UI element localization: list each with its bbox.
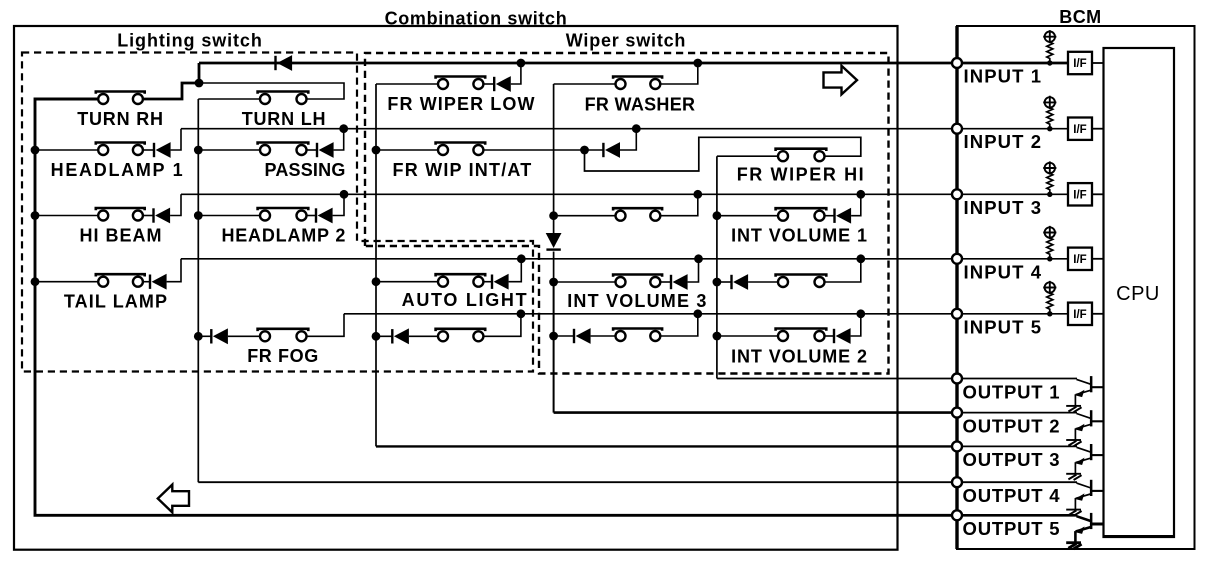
switch TURN LH [258, 90, 309, 94]
node INT VOLUME1 tap [713, 211, 722, 220]
svg-text:FR WASHER: FR WASHER [585, 95, 696, 115]
svg-text:FR FOG: FR FOG [247, 346, 319, 366]
svg-text:I/F: I/F [1073, 124, 1086, 136]
svg-text:HEADLAMP 2: HEADLAMP 2 [221, 226, 346, 246]
wire INPUT4 row [181, 258, 1068, 260]
svg-text:INPUT 4: INPUT 4 [964, 261, 1043, 282]
svg-text:INPUT 2: INPUT 2 [964, 131, 1043, 152]
svg-text:OUTPUT 1: OUTPUT 1 [963, 381, 1061, 402]
node FR WIP INT-AT / INPUT2 [632, 124, 641, 133]
svg-text:I/F: I/F [1073, 190, 1086, 202]
switch HEADLAMP 1 [35, 149, 99, 151]
switch TAIL LAMP [35, 281, 99, 283]
svg-text:TAIL LAMP: TAIL LAMP [64, 292, 168, 312]
diode INT VOLUME 3 [660, 281, 671, 283]
svg-text:I/F: I/F [1073, 254, 1086, 266]
wire INPUT1 row [199, 62, 1068, 65]
transistor OUTPUT 2 driver [1077, 414, 1092, 419]
svg-text:OUTPUT 2: OUTPUT 2 [963, 415, 1061, 436]
node switch / INPUT4 [856, 254, 865, 263]
wire TURN RH to INPUT1 staircase [143, 63, 199, 99]
node PASSING / INPUT2 [339, 124, 348, 133]
node switch / INPUT3 [693, 190, 702, 199]
wire OUTPUT 4 to driver [957, 481, 1077, 483]
bus terminal OUTPUT 1 [952, 374, 962, 384]
switch INT VOLUME 3 [554, 281, 616, 283]
svg-text:OUTPUT 3: OUTPUT 3 [963, 449, 1061, 470]
wire FR WIPER HI link loop [585, 137, 861, 171]
node PASSING tap [194, 146, 203, 155]
switch FR WIPER LOW [376, 83, 438, 85]
node FR WIP INT/AT tap [372, 146, 381, 155]
wire OUTPUT 3 to driver [957, 445, 1077, 447]
diode FR FOG [198, 335, 211, 337]
node INT VOLUME1 / INPUT3 [856, 190, 865, 199]
pull-up resistor [1047, 293, 1053, 314]
diode INT VOLUME 1 [824, 215, 834, 217]
power supply symbol [1045, 97, 1055, 107]
node lower switch tap [372, 332, 381, 341]
wire OUTPUT1 row [717, 378, 957, 380]
power supply symbol [1045, 227, 1055, 237]
bus terminal INPUT 1 [952, 58, 962, 68]
CPU U1 [1104, 48, 1175, 537]
diode D1 on INPUT1 row [274, 56, 276, 70]
bus terminal INPUT 4 [952, 254, 962, 264]
bus terminal INPUT 5 [952, 309, 962, 319]
interface I/F INPUT 5 [1068, 303, 1092, 325]
ground [1066, 473, 1081, 475]
node switch / INPUT5 [693, 309, 702, 318]
wire OUTPUT3 column [375, 84, 377, 446]
wire OUTPUT4 row [198, 481, 957, 483]
svg-text:Wiper switch: Wiper switch [566, 31, 686, 51]
transistor OUTPUT 3 driver [1077, 447, 1092, 452]
node FR FOG tap [194, 332, 203, 341]
switch FR WASHER [554, 83, 616, 85]
node switch row282 tap [713, 278, 722, 287]
switch TURN RH [96, 90, 145, 94]
wire OUTPUT2 row [554, 411, 957, 414]
interface I/F INPUT 3 [1068, 183, 1092, 205]
wire OUTPUT4 column [197, 99, 199, 482]
wire OUTPUT 5 to driver [957, 514, 1077, 517]
switch FR WIP INT/AT [376, 149, 438, 151]
switch AUTO LIGHT [376, 281, 438, 283]
wire TURN LH left [198, 98, 260, 100]
diode HEADLAMP 2 [306, 215, 316, 217]
wire OUTPUT5 column and row [35, 99, 957, 515]
diode FR WIPER LOW [484, 83, 494, 85]
switch wiper colB row216 [554, 215, 616, 217]
ground [1066, 541, 1081, 544]
svg-text:OUTPUT 5: OUTPUT 5 [963, 518, 1061, 539]
lighting switch dashed box [22, 53, 533, 372]
diode D2 vertical on OUTPUT2 column [546, 233, 562, 248]
svg-text:HEADLAMP 1: HEADLAMP 1 [51, 160, 185, 180]
svg-text:INT VOLUME 3: INT VOLUME 3 [567, 291, 707, 311]
diode HEADLAMP 1 [143, 149, 154, 151]
ground [1066, 509, 1081, 511]
wire INPUT2 row [181, 128, 1068, 130]
diode wiper colA row336 [376, 335, 392, 337]
flow arrow right [824, 66, 858, 95]
wire OUTPUT1 column [716, 156, 718, 378]
node HEADLAMP1 tap [31, 146, 40, 155]
svg-text:INT VOLUME 2: INT VOLUME 2 [731, 346, 868, 366]
diode INT VOLUME 2 [824, 335, 834, 337]
switch FR WIPER HI [717, 155, 778, 157]
svg-text:FR WIPER HI: FR WIPER HI [737, 165, 866, 185]
interface I/F INPUT 1 [1068, 52, 1092, 74]
transistor OUTPUT 1 driver [1077, 379, 1092, 384]
bus terminal OUTPUT 5 [952, 510, 962, 520]
wire INPUT5 row [344, 313, 1068, 315]
diode wiper colB row336 [554, 335, 574, 337]
diode PASSING [306, 149, 317, 151]
node FR WIP INT/AT junction [580, 146, 589, 155]
interface I/F INPUT 4 [1068, 248, 1092, 270]
ground [1066, 405, 1081, 407]
node HI BEAM tap [31, 211, 40, 220]
transistor OUTPUT 5 driver [1077, 516, 1092, 521]
node switch row216 tap [549, 211, 558, 220]
svg-text:PASSING: PASSING [264, 160, 345, 180]
svg-text:I/F: I/F [1073, 58, 1086, 70]
svg-text:OUTPUT 4: OUTPUT 4 [963, 485, 1061, 506]
node HEADLAMP2 / INPUT3 [340, 190, 349, 199]
svg-text:FR WIPER LOW: FR WIPER LOW [387, 94, 535, 114]
pull-up resistor [1047, 173, 1053, 194]
ground [1066, 439, 1081, 441]
switch HEADLAMP 2 [198, 215, 260, 217]
node INT VOLUME2 tap [713, 332, 722, 341]
diode TAIL LAMP [143, 281, 150, 283]
node FR WASHER / INPUT1 [693, 59, 702, 68]
svg-text:CPU: CPU [1116, 283, 1160, 305]
bus terminal INPUT 2 [952, 124, 962, 134]
svg-text:TURN LH: TURN LH [242, 109, 327, 129]
power supply symbol [1045, 32, 1055, 42]
power supply symbol [1045, 163, 1055, 173]
wire OUTPUT 1 to driver [957, 378, 1077, 380]
node TAIL LAMP tap [31, 277, 40, 286]
svg-text:I/F: I/F [1073, 309, 1086, 321]
wire INPUT3 row [181, 193, 1068, 195]
node switch row336 tap [549, 332, 558, 341]
svg-text:INPUT 1: INPUT 1 [964, 66, 1043, 87]
transistor OUTPUT 4 driver [1077, 483, 1092, 488]
bus terminal OUTPUT 2 [952, 408, 962, 418]
pull-up resistor [1047, 108, 1053, 129]
BCM input/output bus [955, 26, 958, 549]
svg-text:INT VOLUME 1: INT VOLUME 1 [731, 226, 868, 246]
diode wiper colC row282 [717, 281, 732, 283]
switch PASSING [198, 149, 260, 151]
switch INT VOLUME 1 [717, 215, 778, 217]
svg-text:TURN RH: TURN RH [77, 109, 164, 129]
power supply symbol [1045, 282, 1055, 292]
BCM box [957, 26, 1195, 549]
svg-text:HI BEAM: HI BEAM [80, 226, 163, 246]
wire OUTPUT2 column [553, 84, 555, 234]
wire TURN LH right loop [199, 83, 344, 99]
svg-text:INPUT 5: INPUT 5 [964, 316, 1043, 337]
svg-text:Lighting switch: Lighting switch [117, 31, 263, 51]
svg-text:INPUT 3: INPUT 3 [964, 197, 1043, 218]
switch HI BEAM [35, 215, 99, 217]
node FR WIPER LOW / INPUT1 [517, 59, 526, 68]
bus terminal OUTPUT 4 [952, 477, 962, 487]
node AUTO LIGHT / INPUT4 [517, 254, 526, 263]
flow arrow left [158, 485, 189, 513]
switch FR FOG [258, 328, 309, 332]
wire OUTPUT 2 to driver [957, 412, 1077, 414]
diode FR WIP INT/AT [585, 149, 604, 151]
svg-text:Combination switch: Combination switch [385, 9, 568, 29]
svg-text:BCM: BCM [1059, 7, 1101, 27]
diode HI BEAM [143, 215, 154, 217]
node INT VOLUME3 tap [549, 278, 558, 287]
diode AUTO LIGHT [484, 281, 492, 283]
node AUTO LIGHT tap [372, 277, 381, 286]
wiper switch dashed box [365, 53, 889, 374]
wire OUTPUT3 row [376, 445, 957, 447]
pull-up resistor [1047, 42, 1053, 63]
combination switch box [14, 26, 898, 550]
node HEADLAMP2 tap [194, 211, 203, 220]
pull-up resistor [1047, 238, 1053, 259]
node TURN LH junction [195, 79, 204, 88]
node switch / INPUT5 [517, 309, 526, 318]
node INT VOLUME3 / INPUT4 [694, 254, 703, 263]
bus terminal OUTPUT 3 [952, 441, 962, 451]
switch INT VOLUME 2 [717, 335, 778, 337]
svg-text:AUTO LIGHT: AUTO LIGHT [402, 290, 529, 310]
svg-text:FR WIP INT/AT: FR WIP INT/AT [393, 160, 533, 180]
interface I/F INPUT 2 [1068, 118, 1092, 140]
node INT VOLUME2 / INPUT5 [856, 309, 865, 318]
bus terminal INPUT 3 [952, 189, 962, 199]
